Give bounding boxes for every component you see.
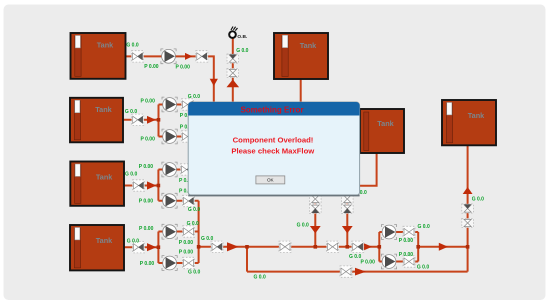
node C1 tee [314, 245, 318, 249]
svg-text:P 0.00: P 0.00 [141, 99, 156, 105]
flow arrow C2 down [342, 226, 353, 233]
tank T2 [70, 98, 123, 143]
svg-text:Something Error: Something Error [240, 106, 303, 115]
node pump branch merge [416, 245, 420, 249]
valve V7 [133, 180, 145, 191]
valve V5 [182, 99, 194, 110]
check valve C1 lower [310, 204, 322, 213]
svg-text:P 0.00: P 0.00 [179, 250, 194, 256]
svg-text:Tank: Tank [96, 172, 113, 181]
pump P2 [162, 97, 177, 112]
wire tank3 upper branch [158, 169, 188, 171]
valve V10 [133, 242, 145, 253]
node C2 tee [346, 245, 350, 249]
svg-text:P 0.00: P 0.00 [139, 164, 154, 170]
wire tank3 split vertical [157, 170, 159, 201]
svg-text:OK: OK [267, 178, 275, 183]
wire pump branch split vertical [378, 232, 380, 262]
check valve right riser upper [462, 204, 474, 213]
valve V17 [403, 256, 415, 267]
svg-text:G 0.0: G 0.0 [472, 197, 484, 203]
svg-text:G 0.0: G 0.0 [188, 94, 200, 100]
svg-text:Tank: Tank [468, 111, 485, 120]
tank T3 [70, 162, 124, 206]
svg-text:P 0.00: P 0.00 [140, 261, 155, 267]
node pump branch split [378, 245, 382, 249]
valve V11 [183, 226, 195, 237]
node tank3 split [157, 184, 161, 188]
wire main header [199, 246, 380, 248]
valve V9 [183, 195, 195, 206]
wire tank2 lower branch [159, 136, 189, 138]
svg-text:G 0.0: G 0.0 [125, 171, 137, 177]
flow arrow A5 right [147, 181, 156, 189]
wire manifold vertical [198, 201, 200, 263]
valve V1 [132, 51, 144, 62]
svg-text:G 0.0: G 0.0 [188, 207, 200, 213]
pump P1 [161, 49, 176, 64]
node tank4 split [157, 245, 161, 249]
svg-text:Tank: Tank [300, 41, 317, 50]
svg-text:G 0.0: G 0.0 [125, 109, 137, 115]
svg-text:G 0.0: G 0.0 [187, 221, 199, 227]
dialog window [188, 102, 359, 196]
valve V15 [352, 241, 364, 252]
wire column C2 drop [346, 195, 348, 247]
wire pump branch upper [379, 231, 418, 233]
wire tank2 split vertical [158, 105, 160, 137]
svg-text:P 0.00: P 0.00 [399, 252, 414, 258]
pump P7 [162, 256, 177, 271]
node manifold junction [197, 245, 201, 249]
tank T6 [360, 109, 404, 153]
pump P5 [162, 193, 177, 208]
tank T4 [70, 225, 124, 270]
svg-text:Tank: Tank [97, 40, 114, 49]
check valve C2 lower [342, 204, 354, 213]
wire bottom return run [247, 271, 468, 273]
svg-text:P 0.00: P 0.00 [361, 260, 376, 266]
svg-text:P 0.00: P 0.00 [141, 137, 156, 143]
svg-text:G 0.0: G 0.0 [417, 265, 429, 271]
wire column C1 drop [314, 195, 316, 247]
wire O.B. boundary drop [232, 38, 234, 104]
valve V18 [340, 266, 352, 277]
svg-text:G 0.0: G 0.0 [418, 224, 430, 230]
svg-text:G 0.0: G 0.0 [297, 223, 309, 229]
svg-text:Tank: Tank [95, 105, 112, 114]
valve right riser lower [462, 218, 474, 227]
pump P6 [162, 224, 177, 239]
svg-text:Tank: Tank [96, 236, 113, 245]
tank T7 [442, 100, 496, 145]
valve C2 upper [342, 194, 354, 203]
wire tank3 lower branch to manifold [158, 200, 198, 202]
pump P8 [381, 225, 396, 240]
svg-text:P 0.00: P 0.00 [139, 226, 154, 232]
pump P4 [162, 162, 177, 177]
flow arrow A3 up [227, 80, 240, 88]
wire pump branch merge vertical [417, 232, 419, 262]
valve V6 [182, 131, 194, 142]
wire branch outlet [418, 246, 467, 248]
svg-text:G 0.0: G 0.0 [201, 236, 213, 242]
valve V14 [327, 241, 339, 252]
wire tank4 split vertical [157, 232, 159, 264]
wire tank1 output with elbow down [125, 56, 214, 103]
flow arrow A7 right [227, 242, 239, 251]
tank T5 [274, 33, 328, 79]
svg-text:Component Overload!: Component Overload! [233, 136, 314, 145]
svg-text:P 0.00: P 0.00 [139, 198, 154, 204]
pump P9 [381, 254, 396, 269]
node right riser tee [466, 245, 470, 249]
dialog OK button [256, 176, 285, 184]
svg-text:G 0.0: G 0.0 [188, 270, 200, 276]
O.B. boundary icon [229, 27, 247, 41]
valve OB lower [227, 68, 239, 77]
svg-text:G 0.0: G 0.0 [126, 42, 138, 48]
wire tank2 upper branch [159, 104, 189, 106]
pump P3 [162, 129, 177, 144]
flow arrow A8 right [363, 243, 372, 251]
valve V12 [183, 257, 195, 268]
node bottom return tee [245, 245, 249, 249]
svg-text:Tank: Tank [377, 119, 394, 128]
flow arrow A4 right [147, 116, 156, 124]
svg-text:G 0.0: G 0.0 [127, 238, 139, 244]
wire tank5 drop [300, 77, 302, 103]
flow arrow C1 down [310, 226, 321, 233]
flow arrow A10 up [463, 187, 473, 194]
node tank2 split [157, 118, 161, 122]
valve V13 [211, 241, 223, 252]
wire right riser [467, 144, 469, 272]
svg-text:P 0.00: P 0.00 [399, 238, 414, 244]
valve V4 [132, 114, 144, 125]
flow arrow A1 right [185, 53, 193, 60]
svg-text:P 0.00: P 0.00 [179, 240, 194, 246]
valve V16 [403, 226, 415, 237]
wire tank4 output [123, 246, 158, 248]
check valve OB upper [227, 54, 239, 63]
flow arrow A2 down [210, 79, 218, 86]
wire tank6 drop with elbow [360, 152, 377, 186]
flow arrow A11 right [355, 268, 366, 276]
flow arrow A6 right [147, 243, 156, 251]
svg-text:O.B.: O.B. [237, 34, 247, 40]
wire tank2 output [122, 119, 159, 121]
wire tank4 lower branch [158, 262, 198, 264]
svg-text:Please check MaxFlow: Please check MaxFlow [231, 146, 314, 155]
valve V19 [279, 241, 291, 252]
wire bottom return drop [246, 247, 248, 272]
wire tank4 upper branch [158, 231, 198, 233]
valve V2 [196, 51, 208, 62]
valve C1 upper [310, 194, 322, 203]
flow arrow A9 right [439, 243, 448, 251]
wire tank3 output [123, 185, 158, 187]
svg-text:G 0.0: G 0.0 [254, 274, 266, 280]
valve V8 [181, 164, 193, 175]
tank T1 [71, 33, 126, 79]
svg-text:P 0.00: P 0.00 [144, 64, 159, 70]
svg-text:G 0.0: G 0.0 [236, 48, 248, 54]
wire pump branch lower [379, 261, 418, 263]
svg-text:P 0.00: P 0.00 [176, 64, 191, 70]
